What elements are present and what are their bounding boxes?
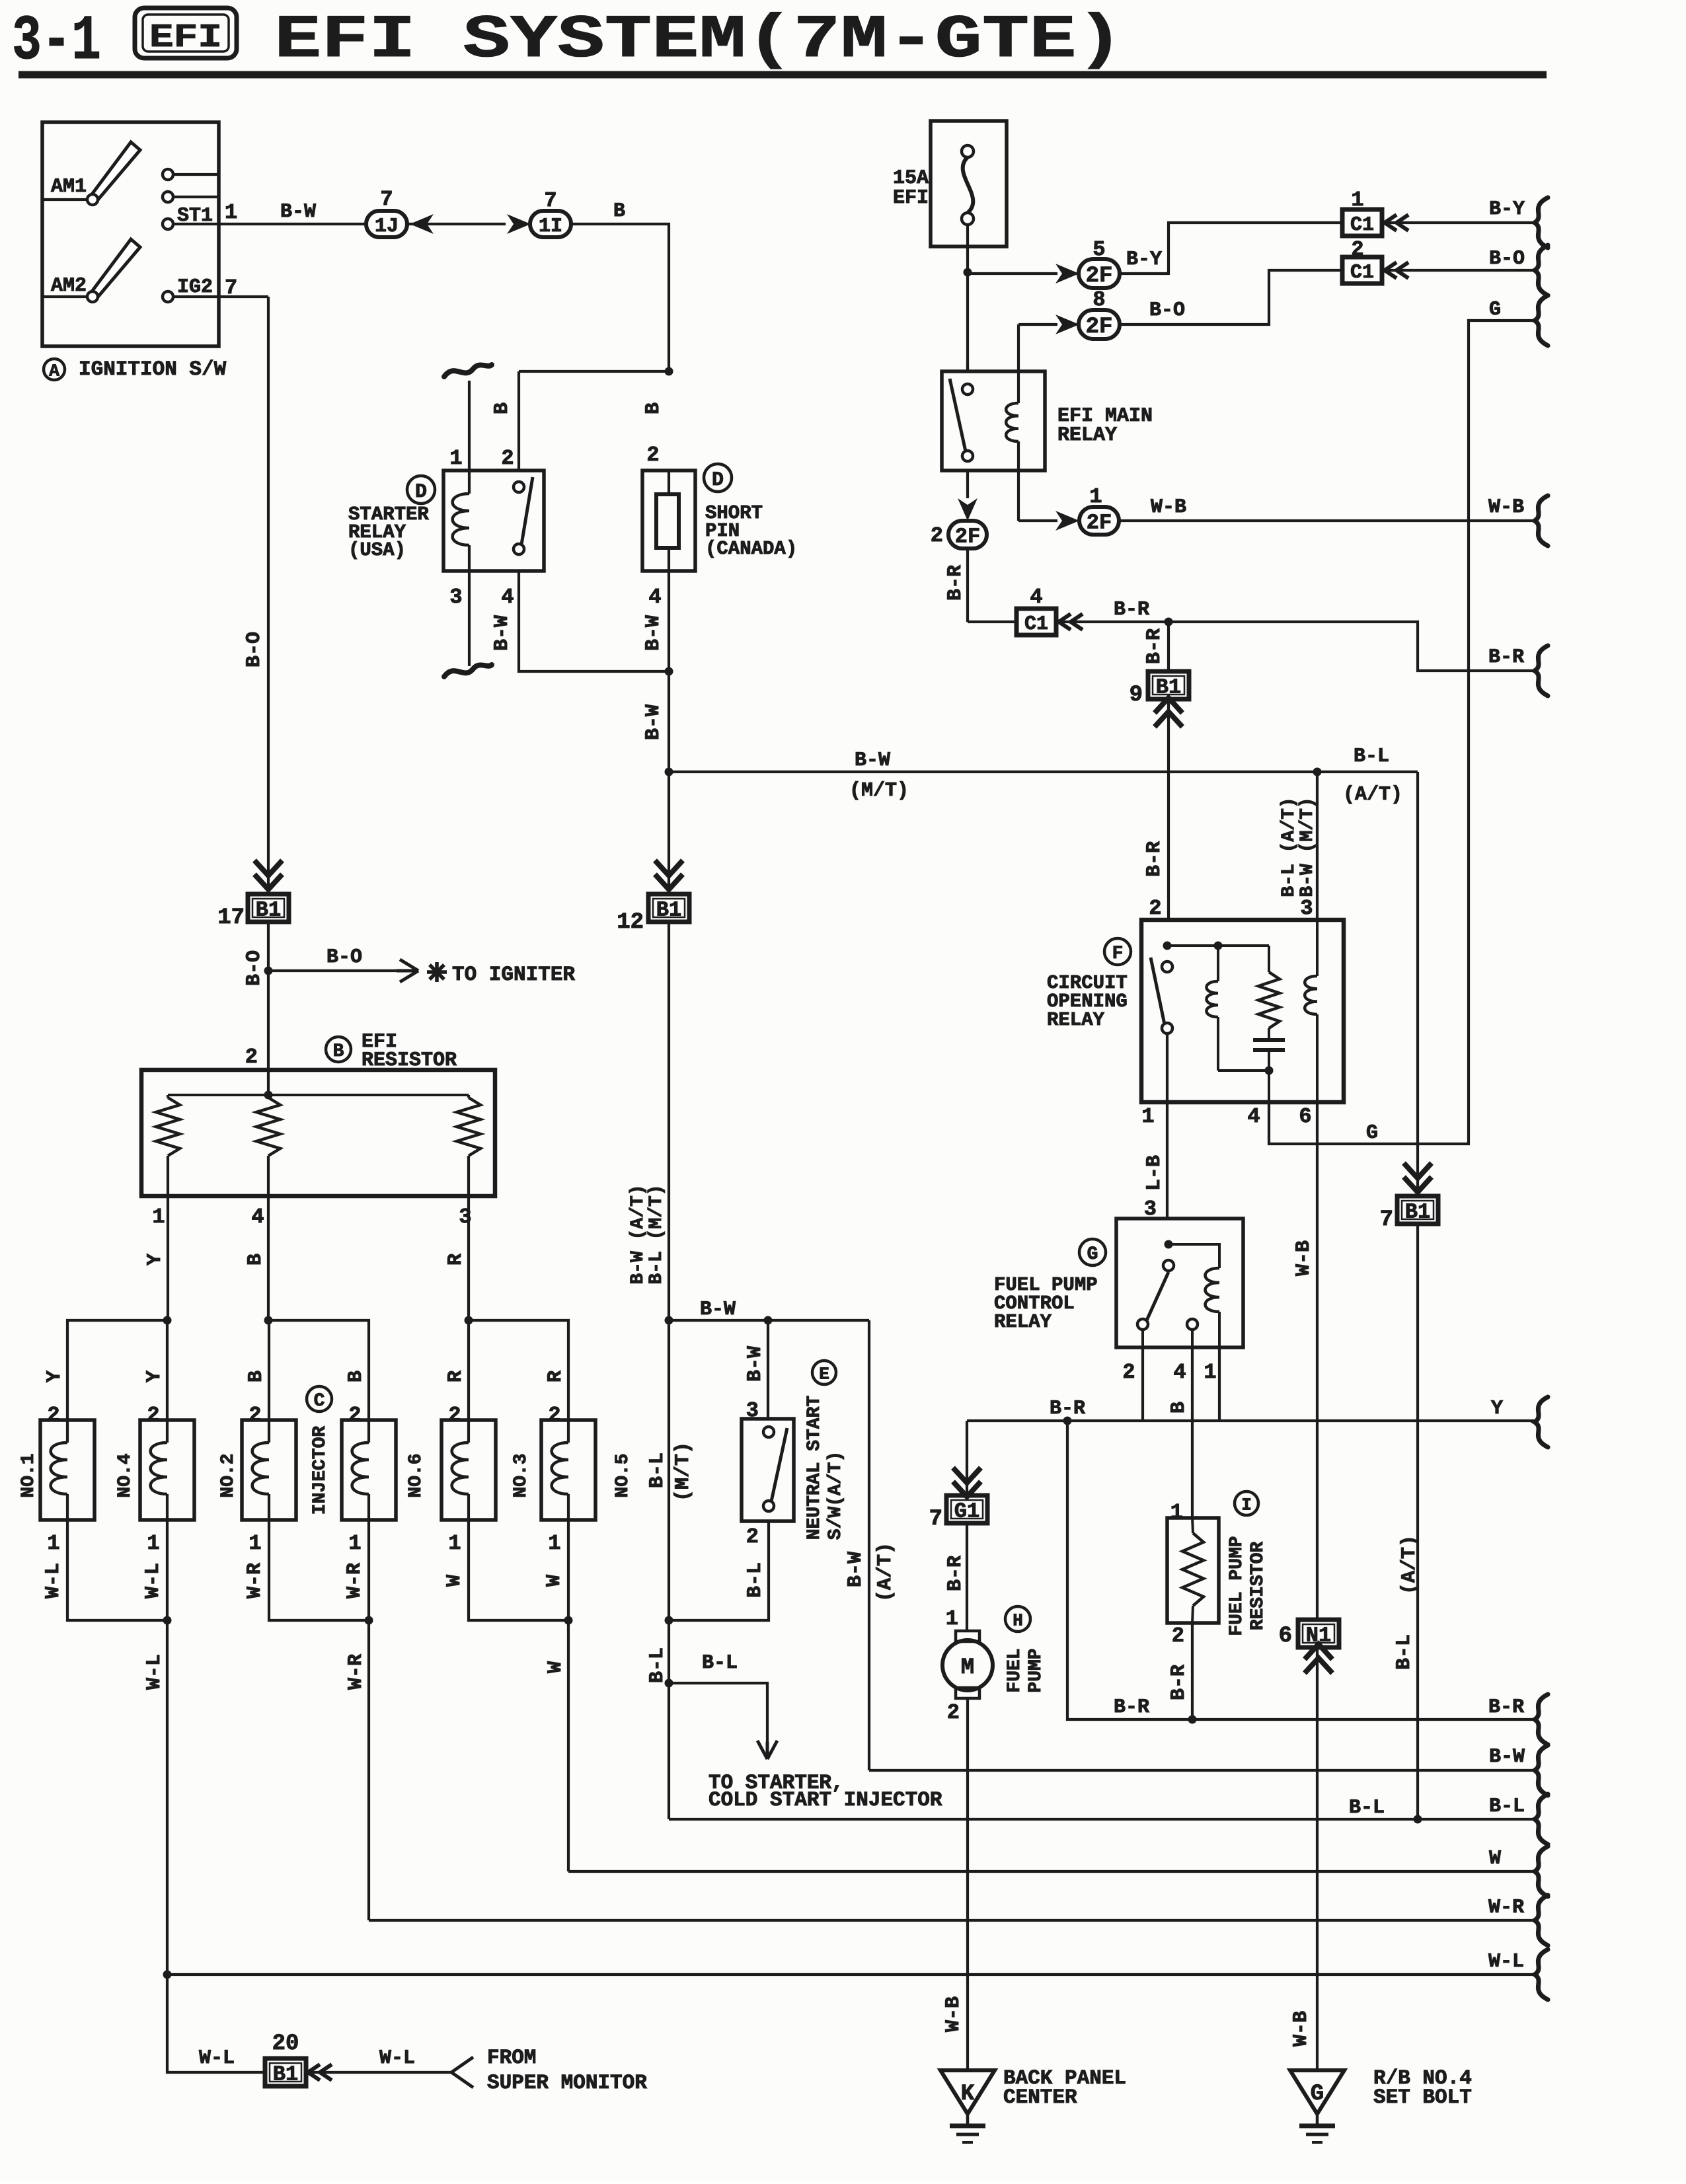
svg-text:7: 7 xyxy=(1380,1207,1393,1232)
svg-text:B-L: B-L xyxy=(1354,745,1389,768)
svg-text:B: B xyxy=(245,1254,267,1265)
svg-text:B: B xyxy=(642,402,665,414)
svg-text:IG2: IG2 xyxy=(177,276,213,299)
svg-text:12: 12 xyxy=(617,910,644,935)
svg-text:NO.1: NO.1 xyxy=(19,1453,39,1497)
svg-text:B-R: B-R xyxy=(1168,1665,1190,1700)
svg-text:AM2: AM2 xyxy=(51,275,87,297)
svg-text:B-W (A/T): B-W (A/T) xyxy=(628,1184,648,1284)
svg-text:4: 4 xyxy=(1030,585,1042,609)
svg-text:(M/T): (M/T) xyxy=(672,1442,695,1501)
svg-text:B-L: B-L xyxy=(1393,1634,1416,1670)
svg-text:20: 20 xyxy=(272,2031,299,2056)
svg-text:B-L: B-L xyxy=(646,1452,669,1488)
svg-text:4: 4 xyxy=(501,585,514,609)
svg-text:H: H xyxy=(1013,1610,1023,1630)
svg-text:E: E xyxy=(819,1364,829,1384)
svg-text:9: 9 xyxy=(1130,683,1143,708)
svg-text:AM1: AM1 xyxy=(51,176,87,198)
svg-text:2F: 2F xyxy=(1086,264,1113,289)
svg-text:6: 6 xyxy=(1299,1104,1311,1129)
svg-text:NO.6: NO.6 xyxy=(406,1453,426,1497)
svg-text:7: 7 xyxy=(380,187,393,211)
svg-text:B-R: B-R xyxy=(1143,841,1166,877)
svg-text:R: R xyxy=(445,1371,467,1382)
svg-text:B-L: B-L xyxy=(1349,1797,1385,1819)
svg-text:(CANADA): (CANADA) xyxy=(705,538,797,560)
svg-text:B1: B1 xyxy=(1405,1200,1430,1224)
svg-text:RELAY: RELAY xyxy=(1057,424,1117,447)
svg-text:FROM: FROM xyxy=(487,2047,536,2070)
svg-text:(A/T): (A/T) xyxy=(874,1542,897,1602)
svg-text:D: D xyxy=(712,469,724,492)
svg-text:2F: 2F xyxy=(1087,511,1112,535)
svg-text:B: B xyxy=(333,1041,344,1062)
svg-text:2: 2 xyxy=(147,1403,159,1427)
svg-text:2: 2 xyxy=(245,1045,258,1069)
svg-text:17: 17 xyxy=(217,905,245,930)
svg-text:CENTER: CENTER xyxy=(1003,2086,1077,2109)
svg-text:2: 2 xyxy=(746,1525,759,1549)
svg-text:D: D xyxy=(415,481,427,504)
svg-text:2: 2 xyxy=(348,1403,361,1427)
svg-text:A: A xyxy=(49,361,59,381)
svg-text:(A/T): (A/T) xyxy=(1399,1535,1421,1595)
svg-text:1: 1 xyxy=(348,1531,361,1556)
svg-text:(USA): (USA) xyxy=(348,539,406,561)
svg-text:B-R: B-R xyxy=(1114,1696,1149,1719)
svg-text:B-Y: B-Y xyxy=(1126,248,1162,271)
svg-text:C: C xyxy=(314,1391,325,1412)
svg-text:4: 4 xyxy=(648,585,661,609)
svg-text:4: 4 xyxy=(1173,1360,1186,1384)
svg-text:15A: 15A xyxy=(893,167,929,190)
svg-text:B-L: B-L xyxy=(702,1652,738,1675)
svg-text:1: 1 xyxy=(147,1531,159,1556)
svg-text:7: 7 xyxy=(544,188,556,213)
svg-text:R: R xyxy=(445,1254,467,1265)
svg-text:R: R xyxy=(545,1371,567,1382)
svg-text:B-L: B-L xyxy=(646,1647,669,1683)
svg-text:1: 1 xyxy=(1089,484,1102,509)
svg-text:B-W: B-W xyxy=(855,749,890,772)
svg-text:B: B xyxy=(491,402,514,414)
svg-text:8: 8 xyxy=(1092,287,1105,312)
svg-text:5: 5 xyxy=(1092,237,1105,262)
svg-text:EFI: EFI xyxy=(893,187,929,209)
svg-text:W-B: W-B xyxy=(1290,2011,1313,2047)
svg-text:W-L: W-L xyxy=(1488,1951,1524,1973)
svg-text:2: 2 xyxy=(646,443,659,467)
svg-text:ST1: ST1 xyxy=(177,205,213,227)
svg-text:W-B: W-B xyxy=(1293,1240,1315,1276)
svg-text:2: 2 xyxy=(501,446,514,471)
svg-text:B-W: B-W xyxy=(642,704,665,740)
svg-text:B-Y: B-Y xyxy=(1489,198,1525,221)
svg-text:RELAY: RELAY xyxy=(994,1311,1052,1333)
svg-text:W-L: W-L xyxy=(199,2047,235,2070)
svg-text:FUEL PUMP: FUEL PUMP xyxy=(1227,1536,1247,1636)
svg-text:2: 2 xyxy=(249,1403,261,1427)
svg-text:1: 1 xyxy=(47,1531,59,1556)
svg-text:W: W xyxy=(1489,1848,1501,1870)
svg-text:B-L: B-L xyxy=(744,1562,767,1598)
svg-text:2: 2 xyxy=(1172,1624,1184,1648)
svg-text:B: B xyxy=(613,200,625,223)
svg-text:PUMP: PUMP xyxy=(1026,1648,1046,1692)
svg-text:B-W: B-W xyxy=(700,1299,736,1321)
svg-text:2: 2 xyxy=(1351,237,1363,262)
svg-text:1: 1 xyxy=(946,1606,958,1631)
svg-text:G: G xyxy=(1366,1122,1378,1145)
svg-text:W: W xyxy=(545,1661,567,1673)
svg-text:EFI SYSTEM(7M-GTE): EFI SYSTEM(7M-GTE) xyxy=(274,5,1124,75)
svg-text:K: K xyxy=(961,2082,975,2107)
svg-text:B-O: B-O xyxy=(1489,248,1525,270)
svg-text:1: 1 xyxy=(548,1531,560,1556)
svg-text:1: 1 xyxy=(1170,1500,1183,1525)
svg-text:B-W: B-W xyxy=(491,615,514,651)
svg-text:NO.3: NO.3 xyxy=(511,1453,531,1497)
svg-text:7: 7 xyxy=(929,1507,942,1532)
svg-text:Y: Y xyxy=(144,1254,167,1265)
svg-text:W-L: W-L xyxy=(143,1654,166,1690)
svg-text:IGNITION S/W: IGNITION S/W xyxy=(79,358,227,381)
svg-text:B-W (M/T): B-W (M/T) xyxy=(1297,797,1318,897)
svg-text:W-B: W-B xyxy=(942,1996,965,2032)
svg-text:W-B: W-B xyxy=(1488,496,1524,519)
svg-text:B1: B1 xyxy=(256,898,281,923)
svg-text:B-R: B-R xyxy=(944,565,967,601)
svg-text:(A/T): (A/T) xyxy=(1343,784,1402,806)
svg-text:2: 2 xyxy=(548,1403,560,1427)
svg-text:B-W: B-W xyxy=(1489,1746,1525,1768)
svg-text:COLD START INJECTOR: COLD START INJECTOR xyxy=(709,1789,942,1812)
svg-text:B: B xyxy=(345,1371,367,1382)
svg-text:B: B xyxy=(1168,1402,1190,1413)
svg-text:INJECTOR: INJECTOR xyxy=(310,1426,330,1515)
svg-text:G1: G1 xyxy=(954,1499,979,1524)
svg-text:G: G xyxy=(1311,2082,1324,2107)
svg-text:Y: Y xyxy=(143,1371,166,1382)
svg-text:G: G xyxy=(1087,1244,1098,1265)
svg-text:B-R: B-R xyxy=(944,1556,967,1591)
svg-text:C1: C1 xyxy=(1024,613,1048,636)
svg-text:EFI: EFI xyxy=(149,19,222,57)
svg-text:B-W: B-W xyxy=(642,615,665,651)
svg-text:B1: B1 xyxy=(273,2062,298,2087)
svg-text:1: 1 xyxy=(249,1531,261,1556)
svg-text:6: 6 xyxy=(1279,1624,1292,1649)
svg-text:I: I xyxy=(1241,1495,1252,1515)
svg-text:W-R: W-R xyxy=(344,1563,366,1599)
svg-text:3: 3 xyxy=(459,1205,471,1229)
svg-text:4: 4 xyxy=(251,1205,264,1229)
svg-text:B-W: B-W xyxy=(744,1346,767,1382)
svg-text:W-B: W-B xyxy=(1151,496,1186,519)
svg-text:B-L (A/T): B-L (A/T) xyxy=(1279,797,1299,897)
svg-text:G: G xyxy=(1489,299,1501,321)
svg-text:B-O: B-O xyxy=(243,632,266,667)
svg-text:M: M xyxy=(961,1655,974,1680)
svg-text:W-L: W-L xyxy=(42,1563,65,1599)
svg-text:2: 2 xyxy=(1149,896,1161,921)
svg-text:2: 2 xyxy=(931,523,943,548)
svg-text:2: 2 xyxy=(448,1403,461,1427)
svg-text:RELAY: RELAY xyxy=(1047,1009,1105,1031)
svg-text:Y: Y xyxy=(1491,1398,1503,1420)
svg-text:2F: 2F xyxy=(955,525,980,549)
svg-text:1: 1 xyxy=(448,1531,461,1556)
svg-text:B-O: B-O xyxy=(243,950,266,986)
svg-text:W: W xyxy=(543,1575,566,1587)
svg-text:C1: C1 xyxy=(1350,262,1374,284)
svg-text:1: 1 xyxy=(152,1205,165,1229)
svg-text:B-R: B-R xyxy=(1050,1398,1085,1420)
svg-text:1I: 1I xyxy=(539,215,562,238)
svg-text:W: W xyxy=(443,1575,466,1587)
svg-text:4: 4 xyxy=(1247,1104,1260,1129)
svg-text:TO IGNITER: TO IGNITER xyxy=(452,963,575,987)
svg-text:3: 3 xyxy=(1300,896,1313,921)
svg-text:1: 1 xyxy=(1141,1104,1154,1129)
svg-text:S/W(A/T): S/W(A/T) xyxy=(825,1451,846,1540)
svg-text:W-L: W-L xyxy=(142,1563,165,1599)
svg-text:B-L: B-L xyxy=(1489,1795,1525,1818)
svg-text:B1: B1 xyxy=(656,898,681,923)
svg-text:NO.2: NO.2 xyxy=(218,1453,239,1497)
svg-text:NEUTRAL START: NEUTRAL START xyxy=(804,1396,825,1540)
svg-text:B-R: B-R xyxy=(1143,628,1166,664)
svg-text:2: 2 xyxy=(47,1403,59,1427)
svg-text:2F: 2F xyxy=(1086,315,1113,340)
svg-text:1: 1 xyxy=(1204,1360,1216,1384)
svg-text:W-R: W-R xyxy=(1488,1897,1524,1919)
svg-text:Y: Y xyxy=(44,1371,66,1382)
svg-text:(M/T): (M/T) xyxy=(849,780,909,802)
svg-text:RESISTOR: RESISTOR xyxy=(1248,1542,1268,1631)
svg-text:B-O: B-O xyxy=(1149,299,1185,322)
svg-text:NO.5: NO.5 xyxy=(613,1453,633,1497)
svg-text:1J: 1J xyxy=(375,215,399,238)
svg-text:3-1: 3-1 xyxy=(12,5,101,77)
svg-text:L-B: L-B xyxy=(1143,1155,1166,1191)
svg-text:SUPER MONITOR: SUPER MONITOR xyxy=(487,2072,647,2095)
svg-text:1: 1 xyxy=(1351,188,1363,212)
svg-text:1: 1 xyxy=(225,200,237,225)
svg-text:B-W: B-W xyxy=(280,201,316,223)
svg-text:2: 2 xyxy=(947,1700,960,1725)
svg-text:NO.4: NO.4 xyxy=(115,1453,135,1497)
svg-text:B-O: B-O xyxy=(326,946,362,969)
svg-text:3: 3 xyxy=(449,585,462,609)
svg-text:C1: C1 xyxy=(1350,214,1374,237)
svg-text:F: F xyxy=(1112,944,1124,964)
svg-text:W-L: W-L xyxy=(379,2047,415,2070)
svg-text:SET BOLT: SET BOLT xyxy=(1373,2086,1472,2109)
svg-text:FUEL: FUEL xyxy=(1005,1648,1025,1692)
svg-text:B-W: B-W xyxy=(845,1552,867,1587)
svg-text:W-R: W-R xyxy=(244,1563,266,1599)
svg-text:B-R: B-R xyxy=(1114,599,1149,621)
svg-text:W-R: W-R xyxy=(345,1654,367,1690)
svg-text:2: 2 xyxy=(1122,1360,1135,1384)
svg-text:B: B xyxy=(245,1371,268,1382)
svg-text:1: 1 xyxy=(449,446,462,471)
svg-text:7: 7 xyxy=(225,276,237,300)
svg-text:B-L (M/T): B-L (M/T) xyxy=(646,1184,667,1284)
svg-text:B-R: B-R xyxy=(1488,1696,1524,1719)
svg-text:B-R: B-R xyxy=(1488,646,1524,669)
